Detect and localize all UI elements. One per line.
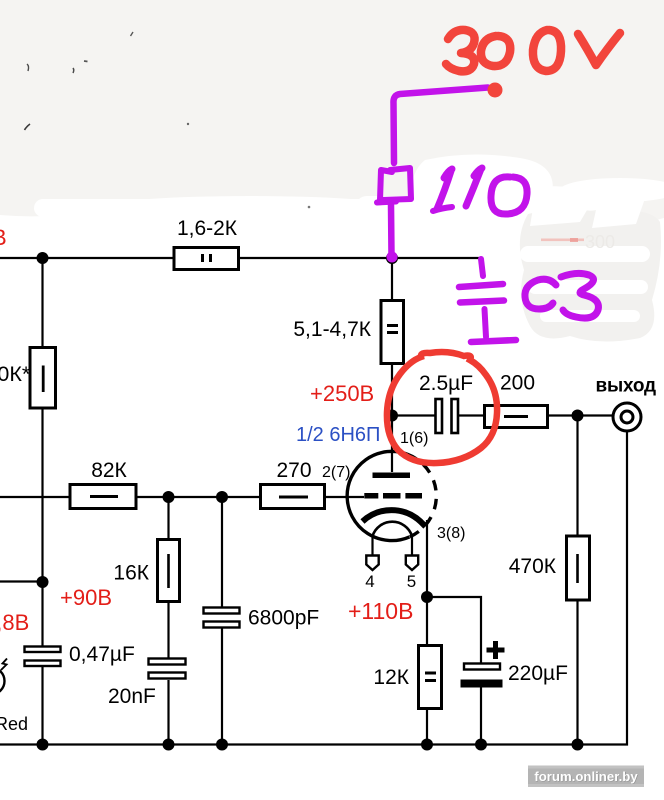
handwritten purple cap C3 bottom lead <box>485 309 487 337</box>
svg-text:+90В: +90В <box>60 585 112 610</box>
svg-text:12К: 12К <box>373 666 409 689</box>
node H cathode junction <box>421 591 433 603</box>
faint red dash <box>541 239 584 242</box>
LED D1 lightning <box>1 659 7 671</box>
handwritten purple cap C3 top lead <box>481 259 483 276</box>
resistor R9 12K <box>419 646 442 709</box>
wire: cathode down from tube <box>426 520 428 597</box>
tube U1 cathode arc <box>363 510 426 526</box>
node I ground 1 <box>37 739 49 751</box>
wire: R2 bottom to C4 top plate <box>41 409 43 646</box>
svg-text:1/2 6Н6П: 1/2 6Н6П <box>296 424 380 446</box>
pin 5 connector symbol <box>406 556 418 571</box>
handwritten red text 300v <box>446 30 620 71</box>
svg-text:6800pF: 6800pF <box>248 607 319 630</box>
watermark bar forum.onliner.by <box>528 766 644 788</box>
wire: stub from left edge into node at (42.5,582) <box>0 580 43 582</box>
handwritten purple wire into node <box>388 205 395 256</box>
svg-text:200: 200 <box>500 372 535 395</box>
wire: bottom ground rail <box>0 432 627 745</box>
wire: C5 bottom to ground rail <box>167 680 169 745</box>
wire: C6 bottom to ground rail <box>221 628 223 745</box>
wire: R3 bottom to anode of tube <box>391 364 393 472</box>
capacitor C7 220uF electrolytic <box>461 641 505 688</box>
background grey band <box>0 0 664 225</box>
wire: C1 to R6 200 <box>458 414 483 416</box>
LED D1 body (cropped circle) <box>0 668 5 695</box>
node N ground 6 <box>572 739 584 751</box>
svg-text:270: 270 <box>276 459 311 482</box>
svg-text:В: В <box>0 225 7 250</box>
node J ground 2 <box>163 739 175 751</box>
pin 4 connector symbol <box>366 556 378 571</box>
svg-text:4,8В: 4,8В <box>0 610 29 635</box>
node E mid rail 1 <box>163 491 175 503</box>
node B plate supply <box>386 252 398 264</box>
node G left LED junction <box>37 576 49 588</box>
node D output <box>572 410 584 422</box>
capacitor C5 20nF <box>149 659 186 679</box>
dirt speck 4 <box>131 32 134 36</box>
resistor R4 82K <box>70 485 136 509</box>
node K ground 3 <box>216 739 228 751</box>
resistor R2 100K* <box>30 348 56 409</box>
wire: middle grid rail y=497 from left edge to tube <box>0 496 364 498</box>
svg-text:300: 300 <box>585 232 615 252</box>
wire: x=222 mid rail to C6 6800pF <box>221 497 223 607</box>
handwritten red circle around C1 <box>387 352 497 463</box>
svg-text:5,1-4,7К: 5,1-4,7К <box>293 318 371 341</box>
resistor R8 470K <box>567 536 590 600</box>
wire: R9 bottom to ground rail <box>426 709 428 745</box>
svg-text:4: 4 <box>365 572 374 591</box>
svg-text:+250В: +250В <box>310 381 374 406</box>
wire: cathode node to C7 220uF <box>427 597 481 663</box>
capacitor C1 2.5uF coupling <box>436 399 459 433</box>
dirt speck 6 <box>187 123 189 125</box>
node F mid rail 2 <box>216 491 228 503</box>
svg-text:Red: Red <box>0 714 28 734</box>
tube U1 anode plate <box>373 473 411 479</box>
svg-text:220µF: 220µF <box>508 662 568 685</box>
dirt speck 3 <box>84 60 88 63</box>
erased white swath <box>34 154 664 234</box>
dirt speck 1 <box>27 64 29 71</box>
wire: R6 to output jack <box>549 414 613 416</box>
tube U1 heater arc <box>373 522 413 536</box>
svg-text:+110В: +110В <box>348 598 413 624</box>
resistor R5 270 <box>261 485 325 509</box>
handwritten red dot at wire end <box>488 83 503 98</box>
wire: output node down to R8 470K <box>576 416 578 537</box>
wire: C4 bottom to ground rail <box>41 667 43 745</box>
tube U1 1/2 6N6P envelope <box>347 451 436 540</box>
wire: C7 bottom to ground rail <box>480 687 482 745</box>
wire: left vertical x=42.5 top rail to R2 <box>41 258 43 347</box>
svg-text:2(7): 2(7) <box>322 464 350 481</box>
wire: R8 bottom to ground rail <box>576 600 578 745</box>
heater lead pin 4 wire <box>371 534 373 555</box>
erased grey cloud right <box>520 209 661 341</box>
wire: x=168.5 mid rail to R7 16K <box>167 497 169 539</box>
erased white streaks in cloud <box>520 188 650 322</box>
wire: R7 bottom to C5 20nF <box>167 602 169 658</box>
svg-text:5: 5 <box>407 572 416 591</box>
handwritten purple wire from 300V <box>393 88 488 164</box>
svg-text:forum.onliner.by: forum.onliner.by <box>534 769 638 784</box>
svg-text:16К: 16К <box>113 562 149 585</box>
svg-text:1(6): 1(6) <box>400 430 428 447</box>
handwritten purple text 110 <box>433 168 527 214</box>
purple blob on node <box>387 252 398 263</box>
svg-text:82К: 82К <box>91 459 127 482</box>
capacitor C6 6800pF <box>204 608 240 628</box>
resistor R6 200 <box>485 406 548 428</box>
svg-text:3(8): 3(8) <box>437 525 465 542</box>
handwritten purple text C3 <box>525 273 599 318</box>
tube U1 grid dashes <box>364 493 422 499</box>
svg-text:выход: выход <box>596 376 657 397</box>
svg-text:0,47µF: 0,47µF <box>69 643 135 666</box>
capacitor C4 0,47uF <box>25 647 61 667</box>
svg-text:100К*: 100К* <box>0 362 31 386</box>
handwritten purple fuse bottom tick <box>377 202 396 203</box>
svg-text:470К: 470К <box>509 555 557 578</box>
handwritten purple ground stroke <box>471 340 516 342</box>
resistor R3 5,1-4,7K <box>381 301 404 364</box>
resistor R1 1,6-2K <box>174 248 239 270</box>
node M ground 5 <box>475 739 487 751</box>
resistor R7 16K <box>158 540 180 602</box>
output jack J1 <box>613 403 641 431</box>
node A top-left <box>37 252 49 264</box>
handwritten purple fuse square <box>380 168 411 200</box>
wire: anode node to C1 coupling cap <box>392 414 435 416</box>
handwritten purple cap C3 plates <box>459 284 503 287</box>
dirt speck 5 <box>25 124 31 130</box>
dirt speck 2 <box>72 68 75 73</box>
wire: cathode node to R9 12K <box>426 597 428 645</box>
node C anode/cap <box>386 410 398 422</box>
wire: top rail y=258 from left edge to x=480 <box>0 257 480 259</box>
heater lead pin 5 wire <box>411 534 413 555</box>
node L ground 4 <box>421 739 433 751</box>
wire: x=392 top rail node down to R3 <box>391 258 393 301</box>
dirt speck 7 <box>308 206 311 209</box>
svg-text:1,6-2К: 1,6-2К <box>177 217 238 240</box>
svg-text:20nF: 20nF <box>108 685 156 708</box>
svg-text:2.5µF: 2.5µF <box>419 372 473 395</box>
